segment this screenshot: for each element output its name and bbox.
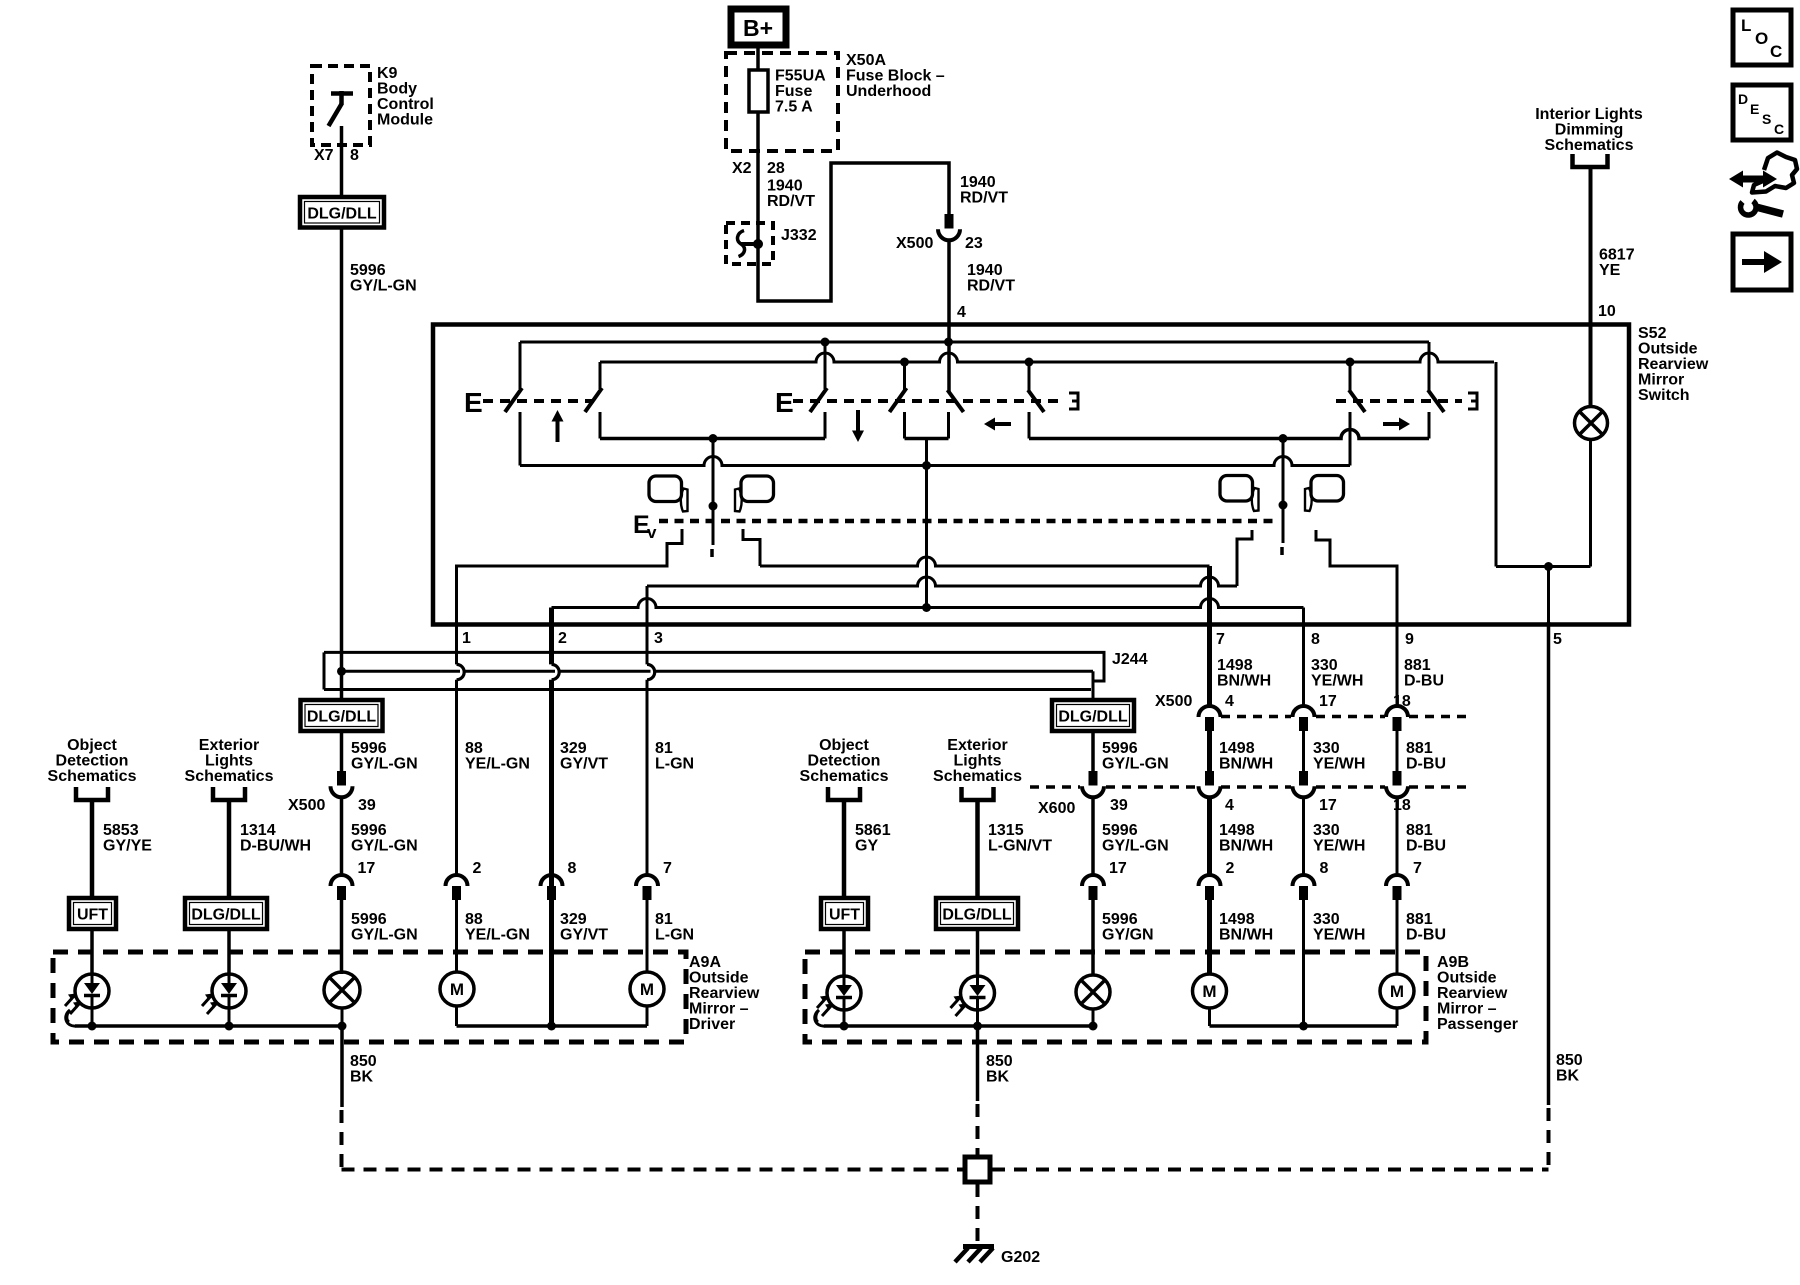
svg-text:1940: 1940 (960, 174, 996, 191)
svg-text:GY/VT: GY/VT (560, 927, 608, 944)
svg-text:Control: Control (377, 96, 434, 113)
svg-text:BK: BK (986, 1069, 1010, 1086)
svg-text:A9A: A9A (689, 954, 721, 971)
svg-text:K9: K9 (377, 65, 398, 82)
svg-text:5996: 5996 (351, 740, 387, 757)
svg-text:8: 8 (1320, 860, 1329, 877)
svg-text:GY: GY (855, 838, 878, 855)
svg-text:GY/GN: GY/GN (1102, 927, 1154, 944)
svg-text:UFT: UFT (829, 907, 860, 924)
svg-text:D-BU: D-BU (1404, 673, 1444, 690)
svg-text:5: 5 (1553, 631, 1562, 648)
svg-text:881: 881 (1406, 911, 1433, 928)
svg-text:1315: 1315 (988, 822, 1024, 839)
svg-text:M: M (1390, 982, 1404, 1001)
svg-text:D-BU/WH: D-BU/WH (240, 838, 311, 855)
svg-text:1498: 1498 (1219, 911, 1255, 928)
svg-text:GY/L-GN: GY/L-GN (351, 927, 418, 944)
svg-text:2: 2 (473, 860, 482, 877)
svg-text:DLG/DLL: DLG/DLL (307, 709, 377, 726)
svg-text:39: 39 (1110, 797, 1128, 814)
svg-text:M: M (450, 980, 464, 999)
svg-text:81: 81 (655, 911, 673, 928)
svg-text:3: 3 (654, 630, 663, 647)
svg-text:Body: Body (377, 81, 417, 98)
svg-text:Schematics: Schematics (1545, 137, 1634, 154)
svg-text:J332: J332 (781, 227, 817, 244)
svg-text:881: 881 (1404, 657, 1431, 674)
svg-text:BN/WH: BN/WH (1219, 927, 1273, 944)
svg-text:881: 881 (1406, 740, 1433, 757)
svg-text:BK: BK (1556, 1068, 1580, 1085)
svg-text:X7: X7 (314, 147, 334, 164)
svg-text:Schematics: Schematics (48, 768, 137, 785)
svg-text:S: S (1762, 111, 1771, 127)
svg-text:D-BU: D-BU (1406, 838, 1446, 855)
svg-text:GY/L-GN: GY/L-GN (1102, 838, 1169, 855)
svg-text:GY/L-GN: GY/L-GN (351, 838, 418, 855)
svg-text:D: D (1738, 91, 1748, 107)
svg-text:Schematics: Schematics (933, 768, 1022, 785)
svg-text:1498: 1498 (1217, 657, 1253, 674)
svg-text:4: 4 (1225, 797, 1234, 814)
svg-text:1940: 1940 (967, 262, 1003, 279)
svg-text:YE/WH: YE/WH (1313, 927, 1365, 944)
svg-text:F55UA: F55UA (775, 68, 826, 85)
svg-text:881: 881 (1406, 822, 1433, 839)
svg-text:M: M (640, 980, 654, 999)
svg-text:850: 850 (986, 1053, 1013, 1070)
svg-text:D-BU: D-BU (1406, 927, 1446, 944)
svg-text:E: E (1750, 101, 1759, 117)
svg-text:330: 330 (1313, 822, 1340, 839)
svg-text:Object: Object (819, 737, 869, 754)
svg-text:39: 39 (358, 797, 376, 814)
svg-text:329: 329 (560, 911, 587, 928)
svg-text:10: 10 (1598, 303, 1616, 320)
svg-text:B+: B+ (743, 15, 773, 41)
svg-text:GY/YE: GY/YE (103, 838, 152, 855)
svg-text:850: 850 (350, 1053, 377, 1070)
svg-text:5853: 5853 (103, 822, 139, 839)
svg-text:Fuse Block –: Fuse Block – (846, 68, 945, 85)
svg-text:Outside: Outside (1638, 341, 1698, 358)
svg-text:17: 17 (1319, 797, 1337, 814)
svg-text:Schematics: Schematics (800, 768, 889, 785)
svg-text:S52: S52 (1638, 325, 1667, 342)
svg-text:329: 329 (560, 740, 587, 757)
svg-text:7: 7 (1413, 860, 1422, 877)
svg-text:YE/L-GN: YE/L-GN (465, 927, 530, 944)
svg-text:7: 7 (1216, 631, 1225, 648)
svg-text:A9B: A9B (1437, 954, 1469, 971)
svg-text:BN/WH: BN/WH (1219, 838, 1273, 855)
svg-text:7.5 A: 7.5 A (775, 99, 813, 116)
svg-text:8: 8 (350, 147, 359, 164)
svg-text:6817: 6817 (1599, 247, 1635, 264)
svg-text:Outside: Outside (689, 970, 749, 987)
svg-text:v: v (647, 523, 657, 542)
svg-text:GY/L-GN: GY/L-GN (1102, 756, 1169, 773)
svg-text:Interior Lights: Interior Lights (1535, 106, 1643, 123)
svg-text:DLG/DLL: DLG/DLL (191, 907, 261, 924)
svg-text:17: 17 (1319, 693, 1337, 710)
svg-text:1314: 1314 (240, 822, 276, 839)
svg-text:Fuse: Fuse (775, 83, 812, 100)
svg-text:DLG/DLL: DLG/DLL (1058, 709, 1128, 726)
svg-text:Mirror: Mirror (1638, 372, 1684, 389)
svg-text:X500: X500 (896, 235, 933, 252)
svg-text:Switch: Switch (1638, 387, 1690, 404)
svg-text:17: 17 (358, 860, 376, 877)
svg-text:Rearview: Rearview (1437, 985, 1508, 1002)
svg-text:1498: 1498 (1219, 822, 1255, 839)
svg-text:RD/VT: RD/VT (967, 278, 1015, 295)
svg-text:C: C (1770, 42, 1782, 61)
svg-text:28: 28 (767, 160, 785, 177)
svg-text:Schematics: Schematics (185, 768, 274, 785)
svg-text:YE/WH: YE/WH (1313, 838, 1365, 855)
svg-text:330: 330 (1313, 911, 1340, 928)
svg-text:L: L (1741, 16, 1751, 35)
svg-text:Exterior: Exterior (947, 737, 1007, 754)
svg-text:23: 23 (965, 235, 983, 252)
svg-text:UFT: UFT (77, 907, 108, 924)
svg-text:X500: X500 (1155, 693, 1192, 710)
svg-text:O: O (1755, 29, 1768, 48)
svg-text:88: 88 (465, 911, 483, 928)
svg-text:Detection: Detection (56, 753, 129, 770)
svg-text:8: 8 (568, 860, 577, 877)
svg-text:X500: X500 (288, 797, 325, 814)
svg-text:L-GN: L-GN (655, 927, 694, 944)
svg-text:8: 8 (1311, 631, 1320, 648)
svg-text:Detection: Detection (808, 753, 881, 770)
svg-text:5996: 5996 (1102, 822, 1138, 839)
svg-text:GY/L-GN: GY/L-GN (351, 756, 418, 773)
svg-text:E: E (464, 387, 483, 418)
svg-text:GY/L-GN: GY/L-GN (350, 278, 417, 295)
svg-text:RD/VT: RD/VT (960, 190, 1008, 207)
svg-text:Object: Object (67, 737, 117, 754)
svg-text:4: 4 (1225, 693, 1234, 710)
svg-text:X50A: X50A (846, 52, 886, 69)
svg-text:Driver: Driver (689, 1016, 735, 1033)
svg-text:J244: J244 (1112, 651, 1148, 668)
svg-text:BN/WH: BN/WH (1217, 673, 1271, 690)
svg-text:DLG/DLL: DLG/DLL (307, 205, 377, 222)
svg-text:C: C (1774, 121, 1784, 137)
svg-text:Rearview: Rearview (1638, 356, 1709, 373)
svg-text:1940: 1940 (767, 178, 803, 195)
svg-text:2: 2 (558, 630, 567, 647)
svg-text:5996: 5996 (351, 911, 387, 928)
svg-text:2: 2 (1226, 860, 1235, 877)
svg-text:M: M (1202, 982, 1216, 1001)
svg-text:330: 330 (1313, 740, 1340, 757)
svg-text:9: 9 (1405, 631, 1414, 648)
svg-text:Underhood: Underhood (846, 83, 931, 100)
svg-text:DLG/DLL: DLG/DLL (942, 907, 1012, 924)
svg-text:Passenger: Passenger (1437, 1016, 1518, 1033)
svg-text:81: 81 (655, 740, 673, 757)
svg-text:YE/WH: YE/WH (1313, 756, 1365, 773)
svg-text:7: 7 (663, 860, 672, 877)
svg-text:BN/WH: BN/WH (1219, 756, 1273, 773)
svg-text:GY/VT: GY/VT (560, 756, 608, 773)
svg-text:88: 88 (465, 740, 483, 757)
svg-text:1498: 1498 (1219, 740, 1255, 757)
svg-text:Module: Module (377, 112, 433, 129)
svg-text:Mirror –: Mirror – (1437, 1001, 1497, 1018)
svg-text:Lights: Lights (954, 753, 1002, 770)
svg-text:Exterior: Exterior (199, 737, 259, 754)
svg-text:BK: BK (350, 1069, 374, 1086)
svg-text:5861: 5861 (855, 822, 891, 839)
svg-text:Lights: Lights (205, 753, 253, 770)
svg-text:E: E (775, 387, 794, 418)
svg-text:1: 1 (462, 630, 471, 647)
svg-text:17: 17 (1109, 860, 1127, 877)
svg-text:5996: 5996 (350, 262, 386, 279)
svg-text:YE/WH: YE/WH (1311, 673, 1363, 690)
svg-text:5996: 5996 (1102, 740, 1138, 757)
svg-text:X2: X2 (732, 160, 752, 177)
svg-text:D-BU: D-BU (1406, 756, 1446, 773)
svg-text:Rearview: Rearview (689, 985, 760, 1002)
svg-text:L-GN: L-GN (655, 756, 694, 773)
svg-text:RD/VT: RD/VT (767, 193, 815, 210)
svg-text:Outside: Outside (1437, 970, 1497, 987)
svg-text:5996: 5996 (351, 822, 387, 839)
svg-text:4: 4 (957, 304, 966, 321)
svg-text:Dimming: Dimming (1555, 122, 1623, 139)
svg-text:850: 850 (1556, 1052, 1583, 1069)
svg-text:Mirror –: Mirror – (689, 1001, 749, 1018)
svg-text:X600: X600 (1038, 800, 1075, 817)
svg-text:YE/L-GN: YE/L-GN (465, 756, 530, 773)
svg-text:L-GN/VT: L-GN/VT (988, 838, 1052, 855)
svg-text:5996: 5996 (1102, 911, 1138, 928)
svg-text:G202: G202 (1001, 1249, 1040, 1266)
svg-text:330: 330 (1311, 657, 1338, 674)
svg-text:YE: YE (1599, 262, 1621, 279)
